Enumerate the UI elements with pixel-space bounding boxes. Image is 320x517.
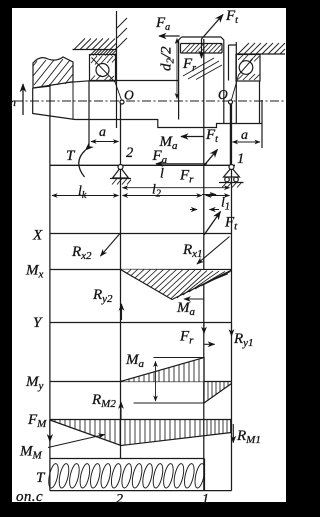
svg-text:l: l bbox=[160, 167, 164, 182]
svg-text:Ft: Ft bbox=[224, 215, 238, 233]
svg-text:2: 2 bbox=[126, 145, 133, 161]
svg-text:a: a bbox=[99, 125, 106, 140]
svg-text:1: 1 bbox=[202, 492, 209, 507]
svg-text:lk: lk bbox=[78, 184, 87, 201]
svg-text:My: My bbox=[25, 374, 44, 392]
svg-text:Y: Y bbox=[33, 315, 43, 331]
svg-text:Fr: Fr bbox=[182, 56, 196, 74]
svg-text:Fr: Fr bbox=[179, 329, 194, 347]
svg-text:l1: l1 bbox=[221, 196, 230, 213]
svg-text:2: 2 bbox=[116, 492, 123, 507]
svg-text:l2: l2 bbox=[152, 183, 161, 200]
svg-text:a: a bbox=[241, 128, 248, 143]
svg-text:Rx1: Rx1 bbox=[182, 242, 203, 260]
svg-text:Ft: Ft bbox=[225, 8, 238, 26]
svg-text:Mx: Mx bbox=[25, 263, 44, 281]
svg-text:Ft: Ft bbox=[205, 127, 218, 145]
svg-text:O: O bbox=[124, 88, 134, 103]
svg-text:Fr: Fr bbox=[179, 168, 194, 186]
svg-text:T: T bbox=[36, 470, 46, 486]
svg-text:Ry2: Ry2 bbox=[92, 287, 113, 305]
svg-text:O: O bbox=[218, 87, 228, 102]
svg-text:X: X bbox=[32, 228, 43, 244]
svg-text:Ma: Ma bbox=[176, 300, 196, 318]
svg-text:Fa: Fa bbox=[152, 148, 168, 166]
svg-text:FM: FM bbox=[27, 412, 47, 430]
svg-text:T: T bbox=[66, 148, 76, 164]
svg-text:Fa: Fa bbox=[155, 15, 170, 33]
svg-text:RM1: RM1 bbox=[236, 428, 261, 446]
svg-text:1: 1 bbox=[237, 151, 244, 167]
svg-text:MM: MM bbox=[19, 444, 43, 462]
svg-text:оп.с: оп.с bbox=[16, 489, 43, 505]
svg-text:Ma: Ma bbox=[125, 352, 145, 370]
svg-text:n: n bbox=[10, 95, 16, 109]
svg-text:d2/2: d2/2 bbox=[159, 46, 177, 71]
svg-text:RM2: RM2 bbox=[91, 392, 116, 410]
svg-text:Ry1: Ry1 bbox=[233, 331, 254, 349]
svg-text:Rx2: Rx2 bbox=[71, 244, 92, 262]
